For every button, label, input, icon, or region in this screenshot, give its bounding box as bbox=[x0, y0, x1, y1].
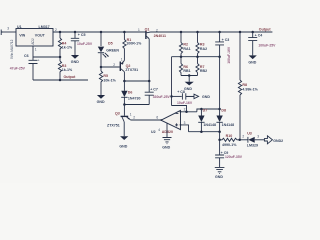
svg-text:GND: GND bbox=[215, 175, 223, 179]
svg-text:100R-1%: 100R-1% bbox=[126, 42, 142, 46]
ground U2 bbox=[162, 138, 171, 150]
diode D6 bbox=[121, 81, 140, 105]
wire to diode top rail bbox=[197, 109, 220, 112]
ground C4 bbox=[248, 48, 256, 65]
svg-text:R3: R3 bbox=[200, 42, 205, 46]
node mid RA1 bbox=[180, 55, 183, 58]
svg-text:D6: D6 bbox=[128, 91, 133, 95]
svg-text:3: 3 bbox=[257, 134, 259, 138]
svg-text:U3: U3 bbox=[247, 131, 252, 135]
node feedback bbox=[185, 111, 188, 114]
node mid divider right bbox=[218, 55, 221, 58]
wire Q2 base bbox=[101, 66, 120, 68]
svg-text:ZTX751: ZTX751 bbox=[125, 68, 138, 72]
svg-text:+ C4: + C4 bbox=[255, 34, 263, 38]
node C7 top bbox=[148, 80, 151, 83]
ground R5 bbox=[97, 88, 106, 105]
ground C9 bbox=[215, 167, 225, 178]
svg-text:2: 2 bbox=[113, 63, 115, 67]
svg-text:GND: GND bbox=[248, 61, 256, 65]
svg-text:VOUT: VOUT bbox=[35, 33, 46, 37]
svg-text:1: 1 bbox=[138, 28, 140, 32]
ground port GND2 bbox=[264, 136, 283, 144]
svg-text:VIN: VIN bbox=[19, 33, 25, 37]
svg-text:GND: GND bbox=[202, 95, 210, 99]
svg-text:C6: C6 bbox=[24, 54, 29, 58]
wire D6 to C7 bottom bbox=[124, 104, 149, 106]
capacitor C3 bbox=[215, 31, 229, 57]
wire diode bottom rail bbox=[189, 131, 220, 133]
svg-text:LM317: LM317 bbox=[39, 25, 50, 29]
node Q2 collector bbox=[123, 80, 126, 83]
op-amp U2 bbox=[151, 110, 181, 133]
svg-text:GND: GND bbox=[71, 60, 79, 64]
svg-text:GREEN: GREEN bbox=[106, 49, 119, 53]
wire ADJ down bbox=[32, 46, 34, 57]
svg-text:RB2: RB2 bbox=[200, 69, 207, 73]
svg-text:1k-1%: 1k-1% bbox=[62, 68, 73, 72]
svg-text:10uF-25V: 10uF-25V bbox=[77, 42, 93, 46]
svg-text:2: 2 bbox=[133, 116, 135, 120]
transistor Q2 bbox=[120, 57, 139, 81]
svg-text:1N4730: 1N4730 bbox=[128, 97, 141, 101]
diode D7 bbox=[198, 108, 216, 132]
svg-text:U1: U1 bbox=[17, 25, 22, 29]
svg-text:+ C7: + C7 bbox=[150, 88, 158, 92]
svg-text:1N4148: 1N4148 bbox=[222, 123, 235, 127]
resistor R10 bbox=[218, 132, 239, 147]
wire Q1 emitter down bbox=[148, 39, 150, 81]
svg-text:1N4148: 1N4148 bbox=[203, 123, 216, 127]
wire noninverting input bbox=[181, 125, 189, 132]
svg-text:GND: GND bbox=[184, 87, 192, 91]
svg-text:330uF-25V: 330uF-25V bbox=[153, 95, 171, 99]
wire input bbox=[3, 31, 16, 33]
svg-text:2: 2 bbox=[55, 28, 57, 32]
wire VOUT rail bbox=[53, 31, 145, 33]
capacitor C5 bbox=[71, 31, 86, 48]
resistor R6 bbox=[179, 57, 190, 76]
svg-text:Output: Output bbox=[64, 75, 77, 79]
svg-text:4990-1%: 4990-1% bbox=[222, 143, 237, 147]
wire op-amp output bbox=[130, 119, 161, 121]
svg-text:Output: Output bbox=[259, 27, 272, 31]
node D8 bottom bbox=[218, 130, 221, 133]
svg-text:GND: GND bbox=[162, 146, 170, 150]
svg-text:D7: D7 bbox=[203, 108, 208, 112]
node R3 bottom bbox=[59, 79, 62, 82]
wire mid divider bbox=[172, 56, 220, 58]
resistor R3 bbox=[58, 57, 73, 80]
svg-text:1: 1 bbox=[121, 57, 123, 61]
svg-text:4: 4 bbox=[158, 128, 160, 132]
node mid RA2 bbox=[196, 55, 199, 58]
wire rail right of Q1 bbox=[151, 31, 273, 33]
wire divider bottom bbox=[181, 75, 198, 77]
svg-text:2: 2 bbox=[242, 134, 244, 138]
svg-text:GND: GND bbox=[119, 144, 127, 148]
svg-text:3: 3 bbox=[7, 27, 9, 31]
svg-text:2: 2 bbox=[156, 28, 158, 32]
svg-text:Q1: Q1 bbox=[145, 27, 150, 31]
svg-text:+ C5: + C5 bbox=[78, 33, 86, 37]
svg-text:6: 6 bbox=[156, 116, 158, 120]
capacitor C8 bbox=[172, 90, 194, 100]
transistor Q3 bbox=[107, 105, 135, 134]
wire output bottom bbox=[33, 79, 88, 81]
svg-text:R10: R10 bbox=[226, 134, 233, 138]
svg-text:9Vin MAX712: 9Vin MAX712 bbox=[10, 39, 14, 59]
svg-text:D5: D5 bbox=[108, 42, 113, 46]
node Q3 base bbox=[123, 103, 126, 106]
capacitor C7 bbox=[145, 81, 158, 105]
svg-text:R8: R8 bbox=[242, 83, 247, 87]
resistor R4 bbox=[58, 31, 73, 57]
wire feedback up bbox=[172, 106, 187, 112]
resistor R7 bbox=[196, 57, 207, 76]
resistor R1 bbox=[123, 31, 142, 61]
svg-text:RB1: RB1 bbox=[183, 69, 190, 73]
ground Q3 bbox=[119, 134, 128, 149]
svg-text:3: 3 bbox=[184, 121, 186, 125]
svg-text:100uF-25V: 100uF-25V bbox=[258, 43, 276, 47]
node C8 tap bbox=[170, 95, 173, 98]
ground C5 bbox=[71, 48, 79, 65]
node D5 R5 bbox=[100, 66, 103, 69]
svg-text:R5: R5 bbox=[103, 74, 108, 78]
connector J1 bbox=[1, 30, 3, 36]
node R10 R8 bbox=[238, 139, 241, 142]
resistor R5 bbox=[99, 67, 116, 88]
wire inverting input bbox=[181, 111, 197, 113]
capacitor C9 bbox=[215, 140, 228, 168]
svg-text:10uF-16V: 10uF-16V bbox=[177, 101, 193, 105]
capacitor C4 bbox=[248, 32, 262, 48]
svg-text:+: + bbox=[38, 59, 40, 63]
svg-text:D8: D8 bbox=[221, 108, 226, 112]
svg-text:RA2: RA2 bbox=[200, 47, 207, 51]
svg-text:2N4011: 2N4011 bbox=[154, 34, 166, 38]
svg-text:4.99k-1%: 4.99k-1% bbox=[242, 88, 258, 92]
wire collector bus bbox=[124, 80, 149, 82]
ground port right bbox=[186, 94, 211, 99]
svg-text:1k-1%: 1k-1% bbox=[62, 46, 73, 50]
wire ADJ to divider bbox=[33, 56, 60, 58]
regulator U1 LM317 box bbox=[16, 29, 53, 47]
wire C3 down bbox=[219, 57, 221, 109]
divider sense line bbox=[171, 57, 173, 106]
svg-text:10k-1%: 10k-1% bbox=[103, 78, 116, 82]
svg-text:2: 2 bbox=[184, 108, 186, 112]
svg-text:GND2: GND2 bbox=[273, 139, 283, 143]
svg-text:1: 1 bbox=[35, 47, 37, 51]
resistor R3b bbox=[196, 31, 207, 57]
resistor R2 bbox=[179, 31, 190, 57]
svg-text:R2: R2 bbox=[183, 42, 188, 46]
zener U3 LM329 bbox=[240, 131, 265, 147]
node ADJ divider bbox=[59, 56, 62, 59]
svg-text:U2: U2 bbox=[151, 130, 156, 134]
svg-text:100uF-16V: 100uF-16V bbox=[227, 46, 231, 64]
svg-text:ADJ: ADJ bbox=[31, 38, 35, 44]
capacitor C6 bbox=[24, 54, 40, 80]
svg-text:Q3: Q3 bbox=[115, 111, 120, 115]
ground divider bbox=[184, 76, 194, 92]
svg-text:LM329: LM329 bbox=[247, 144, 258, 148]
svg-text:RA1: RA1 bbox=[183, 47, 190, 51]
svg-text:ZTX751: ZTX751 bbox=[107, 123, 120, 127]
resistor R8 bbox=[238, 31, 258, 140]
svg-text:1: 1 bbox=[130, 113, 132, 117]
LED D5 bbox=[98, 31, 109, 67]
transistor Q1 bbox=[138, 27, 166, 39]
svg-text:47uF-25V: 47uF-25V bbox=[10, 66, 26, 70]
svg-text:120uF-35V: 120uF-35V bbox=[225, 155, 243, 159]
svg-text:+ C3: + C3 bbox=[222, 38, 230, 42]
diode D8 bbox=[216, 108, 234, 132]
node D7 bottom bbox=[200, 130, 203, 133]
wire op-amp V- pin bbox=[166, 123, 168, 137]
node output cap bbox=[251, 31, 254, 34]
svg-text:GND: GND bbox=[97, 100, 105, 104]
node divider gnd bbox=[188, 74, 191, 77]
